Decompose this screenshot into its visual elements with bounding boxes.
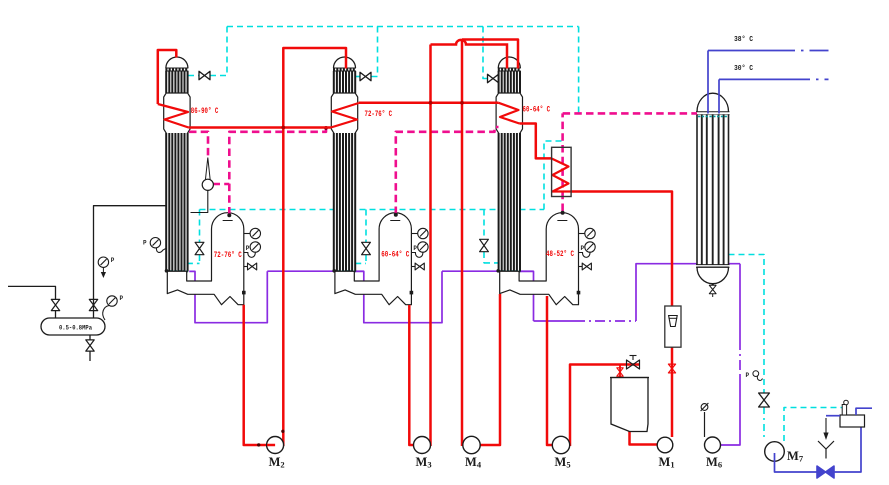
wire cyan drop to effect-1 vent valve [210,27,227,76]
coil red heating zigzag effect 3 [499,103,520,124]
node tubesheet-3 left [496,269,500,273]
wire cyan effect-2 vent stub to dome [356,76,360,78]
wire blue 30C inlet riser [718,79,720,113]
wire cyan top vacuum header [227,26,579,28]
svg-text:P: P [111,257,115,264]
gauge T separator S3 temperature gauge [579,233,585,235]
instrument LC1 body circle [202,179,213,190]
wire red effect-3 bottoms to pump M4 [480,294,500,445]
wire blue 38C header dash-dot [772,50,829,52]
wire red effect-3 outlet to aux exchanger [519,124,551,159]
gauge P separator S3 pressure gauge [585,242,595,252]
wire purple riser to condenser outlet line [636,264,740,321]
wire red feed to effect-1 dome [158,50,177,104]
wire magenta separator-3 vapour riser [561,113,564,211]
wire magenta instrument stub [213,183,230,186]
wire cyan below tube-bundle valve [483,252,485,263]
instrument flow orifice above M6 [704,412,706,437]
wire black overflow arrow [825,418,827,436]
valve black feed drum drain valve [86,340,94,351]
wire magenta effect-1 vapour stub to instrument branch [189,132,208,158]
condenser tube sheet hatch (cyan) [698,115,728,117]
wire purple M6 drop lower part [721,375,740,445]
instrument seal tank vent [842,405,846,416]
wire purple drop from effect 3 to lower header [519,271,533,321]
wire red separator-1 drain to pump M2 [244,305,275,445]
wire red M3 riser to effect-3 dome with crossover hump [431,40,508,69]
tank seal water tank [840,415,865,427]
node tubesheet-1 left [165,269,169,273]
wire red M4 riser to effect-3 dome [462,40,518,69]
heat-exchanger aux condenser shell [552,147,572,196]
funnel drain funnel [818,441,834,449]
instrument LC1 float needle [205,158,210,181]
pump M2 [267,437,284,454]
valve blue M7 discharge valve [817,466,834,478]
gauge T separator S2 temperature gauge [411,233,417,235]
wire cyan below tube-bundle valve [199,255,201,263]
wire cyan drop to tube-bundle valve [365,210,367,243]
pump M4 [463,436,480,453]
node magenta joins effect-2 steam line [324,126,328,130]
condenser column shell [697,93,729,111]
wire cyan drop to condenser inlet line [578,27,580,113]
wire cyan condenser to ejector leg [729,255,765,394]
svg-text:86-90° C: 86-90° C [191,107,219,116]
wire magenta separator-2 vapour to effect-3 heater [396,127,499,214]
valve black feed inlet valve [51,299,59,310]
valve black separator S1 sample valve [244,266,248,268]
gauge P separator S2 pressure gauge [418,242,428,252]
wire cyan stub to tube bundle [355,262,366,264]
wire cyan effect-3 vent stub to dome [498,78,500,80]
wire blue seal tank overflow stub [826,415,840,417]
node red junction M4 riser x transfer line [460,101,464,105]
pump M5 [552,436,569,453]
condenser tube bundle [696,115,698,265]
wire magenta vapour line to condenser [563,112,697,115]
wire magenta separator-1 vapour to effect-2 heater [229,128,326,214]
coil red heating zigzag effect 2 [331,103,359,128]
separator S1 weld tick [223,220,233,222]
separator S2 weld tick [390,220,400,222]
wire red product tank outlet to pump M1 [630,431,666,445]
wire black feed inlet line [8,286,56,299]
svg-text:60-64° C: 60-64° C [381,251,409,260]
wire purple condenser outlet down to pump M6 (upper solid) [739,264,741,340]
wire purple lower header to riser (solid part) [534,320,576,322]
wire cyan effect-1 vent stub to dome [188,75,199,77]
wire cyan ejector leg below valve [763,407,765,438]
pump M1 [657,437,673,453]
valve black separator S2 sample valve [411,266,415,268]
tank T1 (product tank) body [611,378,648,432]
wire blue 38C header solid [708,50,772,52]
wire purple condensate header segment 2-3 [442,270,534,272]
valve vent effect-2 [360,72,371,80]
separator S3 weld tick [557,220,567,222]
evaporator column E3 shell and tube bundle [496,57,522,271]
node tubesheet-2 left [332,269,336,273]
wire red product tank inlet drop [619,365,621,379]
gauge P feed drum outlet pressure gauge [107,296,117,306]
node red junction M2 riser x main line [281,126,285,130]
wire cyan stub to tube bundle [187,262,200,264]
valve vent effect-1 [199,71,210,79]
valve cyan-line bundle isolation valve [195,242,204,254]
wire blue 30C header solid [719,78,790,80]
wire red pump M2 discharge riser to effect-2 dome [283,48,346,446]
wire cyan drop to effect-2 vent valve [371,27,378,77]
wire red separator-2 drain to pump M3 [409,305,422,445]
node separator S3 side nozzle [577,291,581,295]
valve cyan-line bundle isolation valve [362,242,371,254]
filter F1 element [669,316,678,327]
wire black feed drum to effect-1 line [94,206,167,318]
wire red pump M4 circulation riser [461,40,464,447]
gauge P feed drum pressure gauge [98,257,108,267]
node separator S1 side nozzle [242,291,246,295]
wire red pump M3 discharge riser [429,45,432,447]
valve red M1 riser valve [668,364,675,373]
node red junction discharge M2 [281,430,284,433]
wire purple M6 drop dash-dot part [739,340,741,375]
gauge P effect-1 inlet pressure gauge [150,238,160,248]
node red junction suction M2 [257,443,260,446]
wire purple lower header dash-dot part [575,320,636,322]
valve black M5-line valve with handle [627,360,640,369]
svg-text:30° C: 30° C [734,64,753,73]
svg-text:P: P [413,245,417,252]
condenser bottom head [696,264,730,266]
valve black separator S3 sample valve [579,266,583,268]
wire red aux exchanger to pump M1 riser [571,192,672,438]
wire cyan below tube-bundle valve [365,255,367,263]
valve black feed drum outlet valve [89,299,97,310]
coil red heating zigzag effect 1 [158,104,189,128]
node magenta-separator2 junction [394,213,398,217]
valve vent effect-3 [488,74,499,82]
wire purple U-loop under separator 2 [354,271,442,323]
separator/flash vessel S1 with column skirt [167,213,244,305]
wire red M2 suction into pump [267,444,275,447]
svg-text:P: P [143,240,147,247]
valve cyan-line bundle isolation valve [480,239,489,251]
wire blue pump M7 discharge loop [775,427,862,472]
wire black feed drum drain stub [89,335,91,340]
pump M6 [705,437,721,453]
wire blue 30C header dash-dot [790,78,829,80]
wire black LC1 tap to column [191,190,208,212]
svg-text:0.5-0.8MPa: 0.5-0.8MPa [59,325,92,332]
wire cyan long horizontal balance line [200,209,545,211]
wire blue 38C outlet riser [707,51,709,114]
wire cyan stub to tube bundle [484,262,499,264]
node separator S2 side nozzle [410,291,414,295]
svg-text:P: P [581,245,585,252]
pump M7 [765,442,785,462]
pump M3 [414,437,431,454]
wire red separator-3 drain to pump M5 [547,296,561,445]
node magenta-separator3 junction [561,211,565,215]
filter F1 body [665,306,681,347]
separator/flash vessel S2 with column skirt [335,213,412,305]
wire red effect-1 to effect-2 heater [189,126,331,129]
svg-text:72-76° C: 72-76° C [365,110,393,119]
wire red pump M5 discharge to product tank [570,365,640,447]
wire blue seal tank top outlet [856,408,872,415]
svg-text:P: P [246,245,250,252]
wire cyan drop to effect-3 vent valve [483,27,487,79]
svg-text:60-64° C: 60-64° C [523,106,551,115]
valve red product tank inlet valve [617,368,623,376]
vessel V0 feed drum 0.5-0.8MPa [41,318,105,335]
svg-text:72-76° C: 72-76° C [214,251,242,260]
wire purple condensate header segment 1-2 [267,270,364,272]
gauge T separator S1 temperature gauge [244,233,250,235]
svg-text:38° C: 38° C [734,35,753,44]
wire cyan drop to tube-bundle valve [199,210,201,243]
svg-text:48-52° C: 48-52° C [546,250,574,259]
condenser drain valve [709,285,716,293]
separator/flash vessel S3 with column skirt [500,213,579,305]
coil red aux exchanger zigzag [552,159,571,192]
wire black below feed inlet valve [55,311,57,318]
valve black vacuum-line valve at M7 [759,393,770,407]
gauge P separator S1 pressure gauge [250,242,260,252]
node red junction M3 riser x transfer line [429,101,433,105]
wire cyan seal tank header [784,408,844,442]
wire purple U-loop under separator 1 [189,271,267,323]
svg-text:P: P [120,295,124,302]
evaporator column E2 shell and tube bundle [331,57,357,271]
evaporator column E1 shell and tube bundle [164,57,190,271]
node magenta-separator1 junction [227,213,231,217]
svg-text:P: P [746,372,750,379]
wire red effect-2 to effect-3 heater [359,102,499,105]
wire cyan balance line riser at aux exchanger [544,141,562,210]
wire cyan drop to tube-bundle valve [483,210,485,240]
